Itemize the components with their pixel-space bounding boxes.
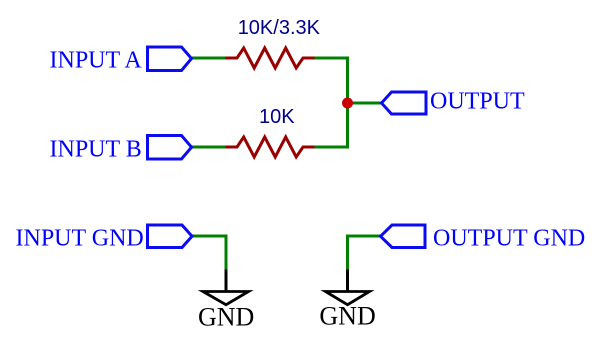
svg-text:10K: 10K <box>259 106 295 128</box>
svg-text:OUTPUT: OUTPUT <box>430 89 525 115</box>
svg-text:INPUT GND: INPUT GND <box>16 225 144 251</box>
svg-text:10K/3.3K: 10K/3.3K <box>238 17 321 39</box>
svg-text:INPUT A: INPUT A <box>50 48 143 74</box>
svg-text:INPUT B: INPUT B <box>50 137 142 163</box>
svg-text:OUTPUT GND: OUTPUT GND <box>433 226 585 252</box>
svg-text:GND: GND <box>198 302 254 331</box>
svg-text:GND: GND <box>319 302 375 331</box>
